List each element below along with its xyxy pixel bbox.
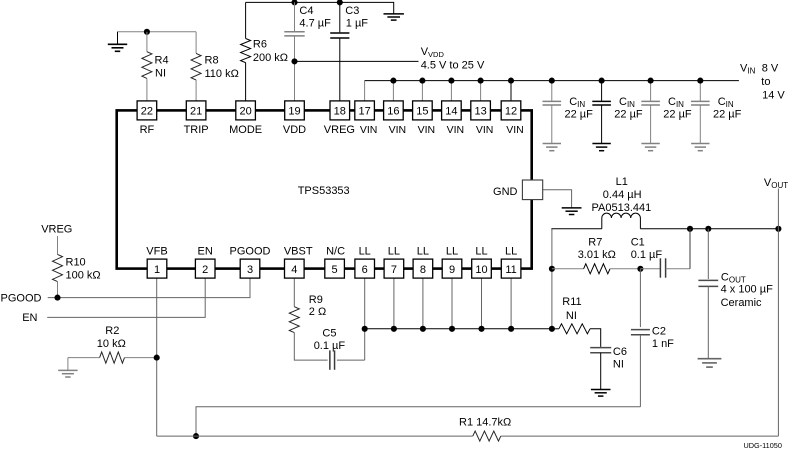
pin 22 (RF) (137, 101, 157, 136)
svg-text:RF: RF (140, 124, 155, 136)
svg-text:EN: EN (198, 246, 213, 258)
svg-text:LL: LL (446, 246, 458, 258)
pin 5 (N/C) (325, 246, 345, 279)
svg-text:0.1 µF: 0.1 µF (314, 340, 346, 352)
svg-text:C4: C4 (299, 5, 313, 17)
svg-text:VIN: VIN (389, 124, 407, 136)
svg-text:22 µF: 22 µF (713, 108, 742, 120)
capacitor C1 (631, 236, 690, 277)
wire: EN to pin 2 (47, 278, 205, 317)
capacitor C5 (314, 327, 365, 370)
ground (CIN3) (641, 143, 659, 145)
junction: LL bus / pin 11 (508, 326, 514, 332)
pin 16 (VIN) (384, 101, 407, 136)
svg-text:L1: L1 (616, 176, 628, 188)
pin 14 (VIN) (442, 101, 465, 136)
label CIN1 value (565, 96, 594, 120)
svg-text:R6: R6 (253, 39, 267, 51)
capacitor CIN2 (592, 81, 611, 144)
svg-text:200 kΩ: 200 kΩ (253, 52, 288, 64)
svg-text:13: 13 (474, 106, 486, 118)
svg-text:1 nF: 1 nF (652, 338, 674, 350)
svg-text:VDD: VDD (283, 124, 306, 136)
junction: VIN rail / CIN2 (599, 78, 605, 84)
junction: LL bus / switch node riser (549, 326, 555, 332)
junction: VIN rail / CIN3 (648, 78, 654, 84)
svg-text:VREG: VREG (41, 224, 72, 236)
svg-text:EN: EN (22, 312, 37, 324)
svg-text:C3: C3 (345, 5, 359, 17)
wire: PGOOD to pin 3 (48, 278, 250, 298)
svg-text:PA0513.441: PA0513.441 (592, 202, 652, 214)
svg-text:R1 14.7kΩ: R1 14.7kΩ (459, 417, 511, 429)
svg-text:LL: LL (505, 246, 517, 258)
ground (C6) (591, 389, 611, 391)
svg-text:0.44 µH: 0.44 µH (603, 189, 642, 201)
svg-text:14: 14 (445, 106, 457, 118)
wire: top rail (R6/C4/C3 to ground) (246, 2, 394, 14)
svg-text:GND: GND (493, 186, 518, 198)
svg-text:7: 7 (391, 264, 397, 276)
junction: PGOOD / R10 (54, 295, 60, 301)
svg-text:8: 8 (420, 264, 426, 276)
svg-text:110 kΩ: 110 kΩ (205, 68, 239, 80)
wire: VOUT vertical (777, 189, 779, 437)
svg-text:8 V: 8 V (762, 63, 779, 75)
svg-text:2 Ω: 2 Ω (309, 306, 326, 318)
svg-text:4 x 100 µF: 4 x 100 µF (721, 284, 773, 296)
svg-text:15: 15 (416, 106, 428, 118)
svg-text:NI: NI (566, 310, 577, 322)
resistor R7 (552, 236, 641, 273)
svg-text:C1: C1 (631, 236, 645, 248)
resistor R11 (NI) (552, 296, 601, 347)
svg-text:1 µF: 1 µF (346, 17, 369, 29)
pin 11 (LL) (501, 246, 521, 279)
svg-text:PGOOD: PGOOD (1, 292, 42, 304)
pin 6 (LL) (355, 246, 375, 279)
svg-text:4.7 µF: 4.7 µF (299, 17, 331, 29)
pin 7 (LL) (384, 246, 404, 279)
label CIN3 value (663, 96, 692, 120)
svg-text:16: 16 (387, 106, 399, 118)
ground (CIN2) (592, 143, 610, 145)
ground (COUT) (698, 358, 722, 360)
junction: VIN rail / pin 15 (419, 78, 425, 84)
junction: node / C1 riser (687, 226, 693, 232)
resistor R2 (68, 325, 157, 370)
junction: VIN rail / pin 14 (448, 78, 454, 84)
junction: LL bus / pin 8 (420, 326, 426, 332)
svg-text:11: 11 (505, 264, 516, 276)
label VIN supply (740, 63, 785, 102)
wire: R1 line left (157, 435, 473, 437)
capacitor C4 (284, 2, 331, 101)
capacitor CIN1 (543, 81, 562, 144)
svg-text:NI: NI (155, 68, 166, 80)
resistor R6 (241, 2, 288, 101)
pin GND box (493, 180, 543, 200)
wire: pin 14 riser (450, 81, 452, 101)
junction: LL bus / pin 9 (449, 326, 455, 332)
svg-text:VIN: VIN (418, 124, 436, 136)
svg-text:0.1 µF: 0.1 µF (631, 249, 663, 261)
capacitor C3 (330, 2, 368, 101)
ground (top-left, R4/R8 net) (117, 32, 119, 45)
pin 2 (EN) (195, 246, 215, 279)
svg-text:LL: LL (417, 246, 429, 258)
pin 3 (PGOOD) (230, 246, 271, 279)
svg-text:22 µF: 22 µF (565, 108, 594, 120)
capacitor COUT (698, 229, 718, 359)
pin 10 (LL) (472, 246, 492, 279)
wire: pin 11 drop to LL bus (510, 278, 512, 329)
svg-text:17: 17 (358, 106, 370, 118)
resistor R8 (191, 32, 239, 101)
wire: LL bus (365, 328, 552, 330)
svg-text:LL: LL (359, 246, 371, 258)
svg-text:MODE: MODE (229, 124, 262, 136)
resistor R1 (459, 417, 511, 441)
svg-text:22: 22 (141, 106, 153, 118)
wire: pin 16 riser (392, 81, 394, 101)
pin 9 (LL) (442, 246, 462, 279)
wire: top-left ground to R4/R8 (118, 31, 197, 33)
ground (CIN4) (691, 143, 709, 145)
wire: C2 bottom to VFB node (196, 407, 640, 436)
capacitor C6 (NI) (590, 346, 627, 389)
svg-text:5: 5 (332, 264, 338, 276)
svg-text:4.5 V to 25 V: 4.5 V to 25 V (421, 60, 485, 72)
ground (CIN1) (543, 143, 561, 145)
ground (top rail) (384, 13, 404, 15)
wire: pin 9 drop to LL bus (451, 278, 453, 329)
svg-text:PGOOD: PGOOD (230, 246, 271, 258)
junction: VIN rail / pin 13 (478, 78, 484, 84)
capacitor C2 (631, 269, 674, 407)
wire: pin 17 riser (364, 81, 366, 101)
junction: VFB line / R1 line (193, 433, 199, 439)
svg-text:19: 19 (288, 106, 300, 118)
svg-text:14 V: 14 V (762, 89, 785, 101)
svg-text:C6: C6 (613, 346, 627, 358)
svg-text:9: 9 (449, 264, 455, 276)
wire: pin 1 (VFB) vertical (156, 278, 158, 436)
svg-text:3.01 kΩ: 3.01 kΩ (578, 249, 616, 261)
op-amp U1 body (TPS53353 IC outline) (117, 110, 532, 268)
wire: pin 12 riser (510, 81, 512, 101)
wire: pin 10 drop to LL bus (481, 278, 483, 329)
junction: VFB / R2 (154, 355, 160, 361)
wire: pin 8 drop to LL bus (422, 278, 424, 329)
label CIN4 value (713, 96, 742, 120)
junction: VIN rail / pin 12 (508, 78, 514, 84)
resistor R4 (NI) (142, 32, 169, 101)
svg-text:6: 6 (362, 264, 368, 276)
svg-text:VREG: VREG (324, 124, 355, 136)
wire: pin 15 riser (421, 81, 423, 101)
svg-text:22 µF: 22 µF (614, 108, 643, 120)
svg-text:Ceramic: Ceramic (721, 297, 762, 309)
capacitor CIN4 (691, 81, 710, 144)
pin 21 (TRIP) (184, 101, 209, 136)
resistor R9 (289, 278, 327, 360)
label COUT value (721, 271, 773, 309)
svg-text:TPS53353: TPS53353 (298, 185, 350, 197)
junction: VIN rail / pin 16 (390, 78, 396, 84)
svg-text:TRIP: TRIP (184, 124, 209, 136)
junction: C4 / VDD rail (291, 58, 297, 64)
wire: LL bus to L1 (switch node riser) (551, 229, 553, 329)
wire: pin 13 riser (480, 81, 482, 101)
svg-text:R10: R10 (66, 256, 86, 268)
junction: R7 / C1 / C2 (637, 266, 643, 272)
svg-text:VBST: VBST (284, 246, 313, 258)
pin 8 (LL) (413, 246, 433, 279)
wire: R1 line right (to VOUT) (501, 435, 779, 437)
svg-text:18: 18 (334, 106, 346, 118)
pin 17 (VIN) (355, 101, 378, 136)
svg-text:VIN: VIN (360, 124, 378, 136)
pin 12 (VIN) (501, 101, 524, 136)
wire: VIN rail (365, 80, 739, 82)
svg-text:VIN: VIN (447, 124, 465, 136)
svg-text:12: 12 (505, 106, 517, 118)
svg-text:R7: R7 (588, 236, 602, 248)
wire: L1 to VOUT node (640, 228, 778, 230)
svg-text:VFB: VFB (146, 246, 167, 258)
pin 4 (VBST) (284, 246, 313, 279)
svg-text:20: 20 (239, 106, 251, 118)
pin 20 (MODE) (229, 101, 262, 136)
junction: node / COUT (705, 226, 711, 232)
label VVDD supply (421, 46, 485, 71)
junction: LL bus / pin 6 (362, 326, 368, 332)
junction: top rail / C4 (291, 0, 297, 5)
svg-text:4: 4 (291, 264, 297, 276)
wire: C1 riser to node (689, 229, 691, 269)
ground (GND pin) (562, 207, 582, 209)
wire: pin 7 drop to LL bus (393, 278, 395, 329)
svg-text:LL: LL (388, 246, 400, 258)
svg-text:10 kΩ: 10 kΩ (97, 338, 126, 350)
junction: switch node / R7 (549, 266, 555, 272)
junction: LL bus / pin 7 (391, 326, 397, 332)
svg-text:R2: R2 (105, 325, 119, 337)
svg-text:R11: R11 (562, 296, 581, 308)
svg-text:10: 10 (475, 264, 487, 276)
svg-text:100 kΩ: 100 kΩ (66, 270, 101, 282)
wire: pin 6 drop (LL bus / C5) (364, 278, 366, 360)
svg-text:22 µF: 22 µF (663, 108, 692, 120)
label CIN2 value (614, 96, 643, 120)
junction: node / VOUT wire (775, 226, 781, 232)
svg-text:1: 1 (154, 264, 160, 276)
svg-text:UDG-11050: UDG-11050 (744, 441, 782, 449)
pin 1 (VFB) (146, 246, 167, 279)
pin 19 (VDD) (283, 101, 306, 136)
svg-text:21: 21 (190, 106, 202, 118)
pin 15 (VIN) (413, 101, 436, 136)
svg-text:N/C: N/C (326, 246, 345, 258)
resistor R10 (53, 236, 101, 298)
junction: VIN rail / CIN4 (697, 78, 703, 84)
junction: VIN rail / CIN1 (549, 78, 555, 84)
capacitor CIN3 (641, 81, 660, 144)
svg-text:VIN: VIN (476, 124, 494, 136)
wire: GND pin to ground (542, 190, 572, 208)
wire: VDD rail (295, 60, 419, 62)
svg-text:to: to (761, 76, 770, 88)
svg-text:3: 3 (247, 264, 253, 276)
svg-text:C5: C5 (322, 327, 336, 339)
ground (R2) (58, 369, 77, 371)
svg-text:R9: R9 (309, 294, 323, 306)
junction: top rail / C3 (337, 0, 343, 5)
svg-text:R8: R8 (205, 54, 219, 66)
inductor L1 (592, 176, 652, 229)
pin 13 (VIN) (471, 101, 494, 136)
pin 18 (VREG) (324, 101, 355, 136)
svg-text:VIN: VIN (506, 124, 524, 136)
junction: LL bus / pin 10 (478, 326, 484, 332)
svg-text:LL: LL (475, 246, 487, 258)
svg-text:NI: NI (613, 358, 624, 370)
svg-text:C2: C2 (652, 326, 666, 338)
junction: ground wire / R4 (144, 29, 150, 35)
svg-text:R4: R4 (155, 54, 169, 66)
svg-text:2: 2 (202, 264, 208, 276)
